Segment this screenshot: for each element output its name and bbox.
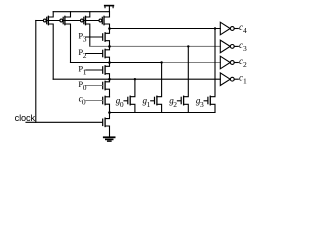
node c2 line: [71, 62, 162, 64]
label P3: [78, 30, 86, 43]
svg-text:2: 2: [83, 51, 87, 60]
transistor P0 pass: [103, 79, 110, 97]
wire P3 gate: [86, 36, 102, 38]
svg-text:3: 3: [200, 100, 204, 109]
transistor T3 precharge PMOS (drain to c3): [81, 12, 90, 47]
wire clock gate line (top precharge row): [36, 20, 99, 22]
junction G1 riser on c2: [160, 61, 162, 63]
wire VDD rail top: [53, 11, 109, 13]
op-amp style inverter I4 (c1): [220, 73, 238, 86]
op-amp style inverter I2 (c3): [220, 40, 238, 53]
wire bottom rail: [110, 112, 216, 114]
transistor P2 pass: [103, 46, 110, 62]
wire P1 gate: [86, 69, 102, 71]
power VDD symbol: [105, 6, 114, 12]
node c3 line: [90, 45, 221, 47]
transistor G0 generate NMOS: [124, 79, 135, 112]
svg-text:3: 3: [83, 34, 87, 43]
node c4 line: [110, 28, 221, 30]
svg-text:0: 0: [120, 100, 124, 109]
label c1 out: [239, 73, 247, 86]
node c1 junction at backbone: [108, 78, 111, 81]
label c4 out: [239, 22, 247, 35]
op-amp style inverter I1 (c4): [220, 22, 238, 35]
junction backbone to bottom rail: [108, 111, 111, 114]
transistor C0 input pass: [103, 96, 110, 112]
label c3 out: [239, 40, 247, 53]
label G3: [196, 96, 204, 109]
op-amp style inverter I3 (c2): [220, 56, 238, 69]
transistor T2 precharge PMOS (drain to c2): [60, 12, 71, 63]
svg-text:3: 3: [243, 44, 247, 53]
svg-text:2: 2: [173, 100, 177, 109]
svg-text:0: 0: [82, 98, 86, 107]
label G1: [143, 96, 151, 109]
label P1: [78, 63, 86, 76]
svg-text:1: 1: [83, 67, 87, 76]
svg-text:1: 1: [147, 100, 151, 109]
transistor T4 precharge PMOS (drain to c4): [99, 12, 110, 29]
label G2: [169, 96, 177, 109]
transistor P1 pass: [103, 63, 110, 80]
junction G2 riser on c3: [187, 45, 189, 47]
svg-text:clock: clock: [15, 113, 36, 123]
label G0: [116, 96, 124, 109]
ground symbol: [104, 137, 115, 141]
label c2 out: [239, 56, 247, 69]
wire clock horizontal: [26, 121, 102, 123]
transistor G1 generate NMOS: [151, 63, 162, 113]
junction G3 riser on c4: [214, 27, 216, 29]
node c2 junction at backbone: [108, 61, 111, 64]
svg-text:4: 4: [243, 26, 247, 35]
transistor foot clock NMOS: [103, 113, 110, 137]
junction G0 riser on c1: [134, 78, 136, 80]
transistor P3 pass: [103, 29, 110, 47]
svg-text:1: 1: [243, 77, 247, 86]
label P0: [78, 79, 86, 92]
svg-text:0: 0: [83, 83, 87, 92]
transistor G2 generate NMOS: [177, 46, 188, 112]
node c1 line: [53, 78, 220, 80]
transistor T1 precharge PMOS (drain to c1): [43, 12, 53, 80]
wire P2 gate: [86, 53, 102, 55]
wire clock riser: [35, 21, 37, 123]
node c3 junction at backbone: [108, 45, 111, 48]
label P2: [78, 47, 86, 60]
svg-text:2: 2: [243, 60, 247, 69]
node c4 junction at backbone: [108, 27, 111, 30]
wire C0 gate: [86, 100, 102, 102]
wire P0 gate: [86, 85, 102, 87]
label C0: [79, 94, 86, 107]
transistor G3 generate NMOS: [204, 29, 215, 113]
